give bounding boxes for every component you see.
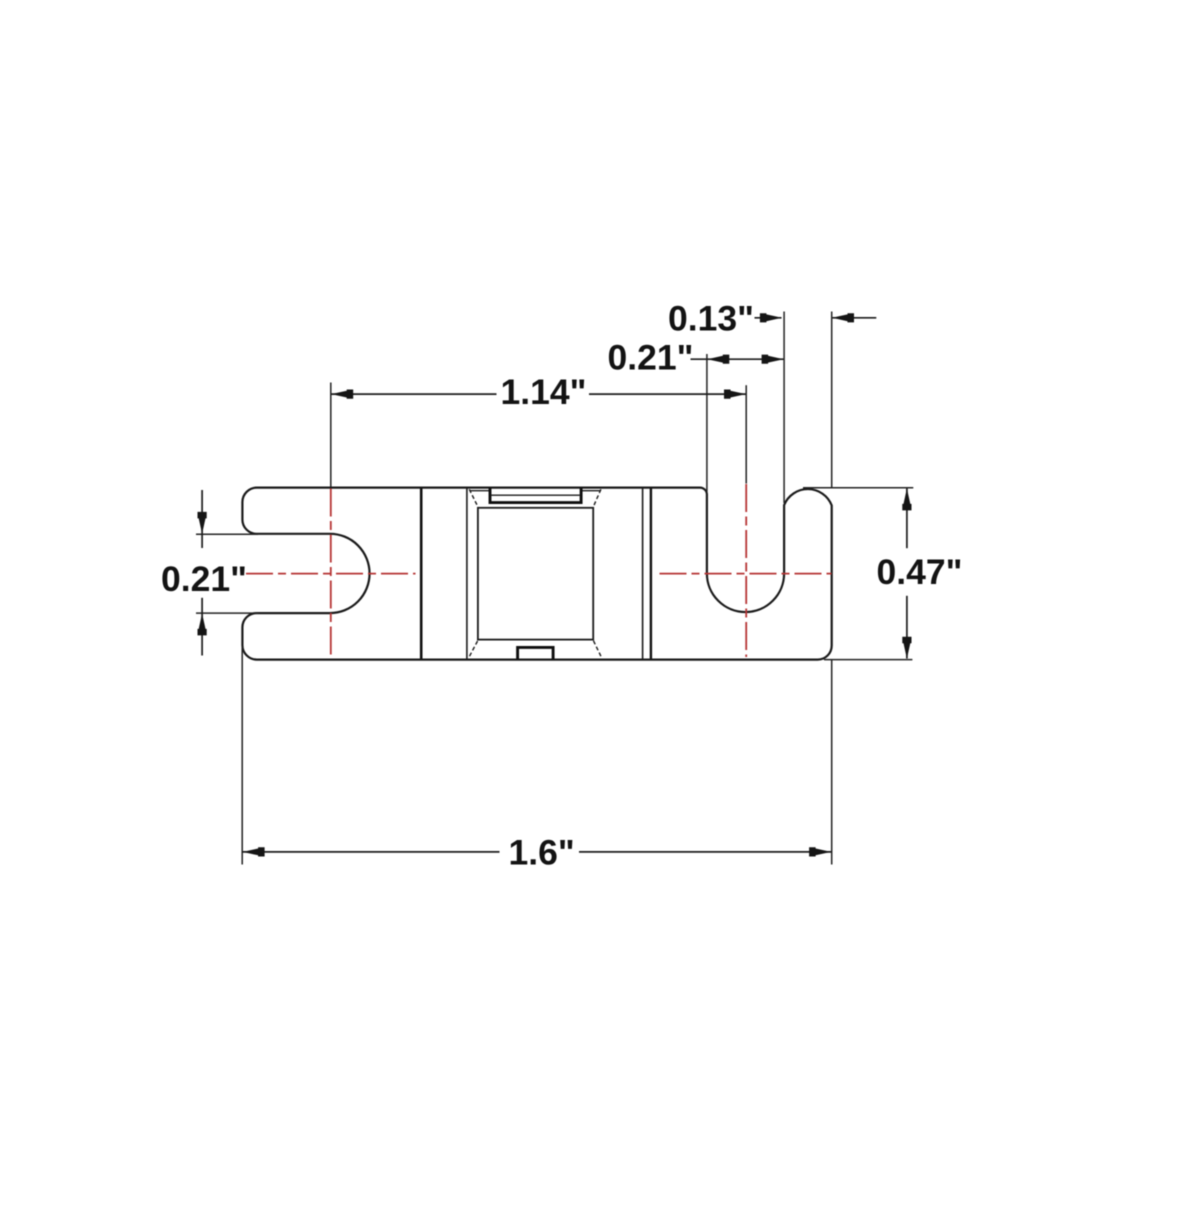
- extension line 0.13 right (part right edge up): [831, 312, 833, 489]
- extension line 0.21 left (slot left edge up): [706, 354, 708, 492]
- extension line 1.6 right: [831, 660, 833, 865]
- extension line slot top edge left: [196, 533, 258, 535]
- red centerline horizontal right slot: [660, 573, 832, 575]
- red centerline vertical left slot: [330, 489, 332, 659]
- recess line right of top tab: [582, 490, 601, 492]
- bottom tab (bold outline): [518, 647, 554, 659]
- thin internal vertical line (right body edge): [642, 488, 644, 659]
- recess line left of top tab: [470, 490, 490, 492]
- dimension line 0.21 left vertical: [201, 490, 203, 548]
- dimension line 1.14: [331, 393, 497, 395]
- thin internal vertical line (left body edge): [466, 488, 468, 659]
- top tab inner line: [492, 494, 580, 496]
- extension line 0.13 left (slot right edge up): [783, 312, 785, 504]
- extension line slot bottom edge left: [196, 612, 258, 614]
- red centerline vertical right slot: [745, 484, 747, 657]
- red centerline horizontal left slot: [246, 573, 416, 575]
- thick internal vertical line (right cap edge): [650, 488, 652, 659]
- chamfer dashed line top-right: [593, 489, 601, 508]
- extension line 0.47 bottom: [824, 659, 912, 661]
- svg-text:0.21": 0.21": [161, 559, 247, 599]
- svg-text:0.47": 0.47": [877, 552, 963, 592]
- chamfer dashed line bottom-left: [470, 640, 479, 656]
- dimension line 0.13: [755, 317, 782, 319]
- thick internal vertical line (left cap edge): [420, 488, 423, 659]
- chamfer dashed line top-left: [469, 489, 478, 507]
- extension line 1.14 left (left slot centerline up): [330, 383, 332, 487]
- extension line 0.47 top: [803, 487, 913, 489]
- extension line 1.6 left: [241, 646, 243, 865]
- dimension line 1.6: [242, 851, 499, 853]
- svg-text:0.13": 0.13": [668, 299, 754, 339]
- dimension line 0.21 top: [691, 358, 784, 360]
- top tab (bold U outline): [490, 488, 581, 503]
- inner window rectangle of center body: [478, 508, 593, 640]
- chamfer dashed line bottom-right: [593, 640, 601, 656]
- svg-text:1.14": 1.14": [501, 372, 587, 412]
- svg-text:0.21": 0.21": [608, 338, 694, 378]
- extension line 1.14 right (right slot centerline up): [745, 385, 747, 483]
- dimension line 0.47 vertical: [906, 489, 908, 549]
- part outline (fuse body side view with left fork slot and top-right U slot): [242, 488, 831, 660]
- svg-text:1.6": 1.6": [509, 833, 575, 873]
